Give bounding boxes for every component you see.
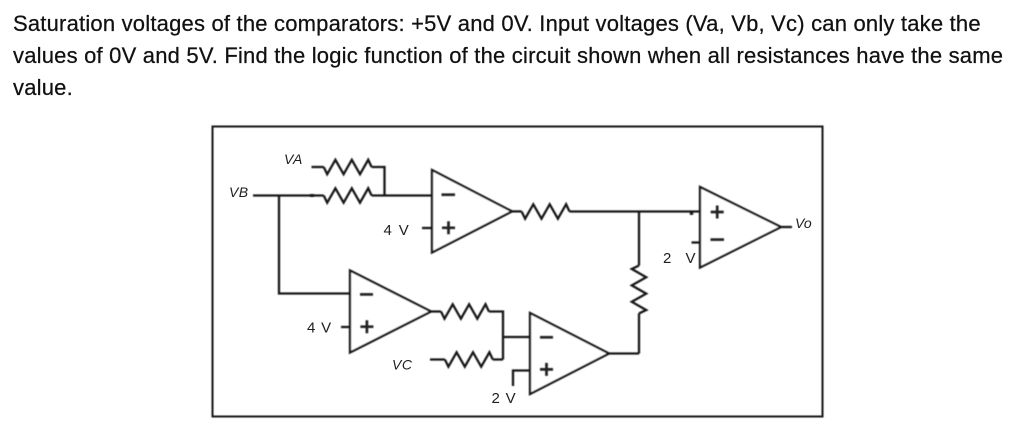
wire junction down from top wire [638,212,640,266]
resistor R-VA [324,160,372,174]
wire 4V tick U1 [422,227,432,229]
wire 2V stub U3 [513,371,530,387]
svg-text:Vo: Vo [795,215,812,231]
wire node to U1 inverting input [372,194,432,196]
plus sign U2 [360,320,373,333]
svg-text:2: 2 [663,250,671,267]
minus sign U3 [540,336,553,339]
op-amp U4 [700,187,781,268]
op-amp U1 [432,170,512,253]
wire VA resistor to node [372,167,385,196]
op-amp U2 [350,271,431,353]
wire to U4 noninverting input [570,210,701,212]
wire U3 output [609,352,639,354]
resistor R-VB [324,188,372,202]
svg-text:V: V [686,250,696,267]
svg-text:VA: VA [284,151,303,167]
wire VC lead [430,358,445,360]
node dot near U4 input [690,212,693,215]
svg-text:VB: VB [229,184,248,200]
minus sign U2 [360,293,373,296]
resistor R-VC [445,352,493,366]
wire node to U3 inverting input [503,336,530,338]
svg-text:VC: VC [392,357,413,373]
wire VB input [253,194,324,196]
wire U2 resistor to node [489,312,503,360]
plus sign U3 [540,363,553,376]
problem statement paragraph [13,8,1023,104]
wire vertical resistor to U3 output [638,313,640,353]
resistor R-vert [632,266,646,314]
minus sign U4 [711,238,725,241]
wire VA lead [312,166,324,168]
resistor R-U1out [522,204,570,218]
wire VB branch down to U2 [279,196,350,294]
wire 2V tick U4 [692,241,701,243]
plus sign U4 [711,206,724,219]
wire 4V tick U2 [341,326,350,328]
op-amp U3 [530,313,609,394]
svg-text:4 V: 4 V [307,319,332,336]
wire U2 output [431,310,441,312]
wire U1 output [512,210,522,212]
wire Vo output [781,226,792,228]
border frame of circuit figure [213,127,823,417]
resistor R-U2out [441,304,489,318]
wire VC resistor to node [493,358,503,360]
plus sign U1 [442,221,455,234]
node dot on VB wire [310,194,314,197]
svg-text:2 V: 2 V [492,390,517,407]
svg-text:4 V: 4 V [384,222,411,239]
minus sign U1 [442,193,456,196]
